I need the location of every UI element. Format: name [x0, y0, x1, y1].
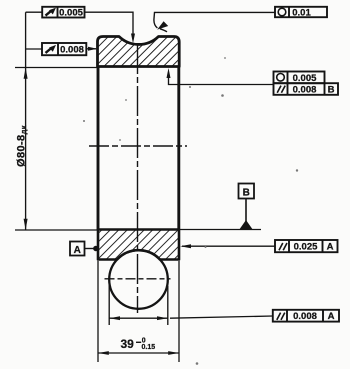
39 dim extension line right: [178, 261, 180, 362]
F6 parallelism symbol: [277, 313, 285, 320]
F6 leader to ball dimension line: [170, 316, 273, 318]
cylinder right outline: [177, 67, 180, 231]
svg-text:B: B: [243, 188, 250, 199]
39 dim right arrowhead: [168, 351, 179, 355]
horizontal centerline of ball: [105, 278, 171, 280]
datum B symbol box: [239, 184, 255, 199]
ball dim right arrowhead: [157, 316, 168, 320]
paper specks: [83, 57, 298, 365]
39 dim left arrowhead: [98, 351, 109, 355]
ball width dimension line: [109, 317, 168, 319]
extension line top left: [15, 67, 97, 69]
feature control frame F1 (runout 0.005): [42, 7, 84, 18]
extension line bottom left: [15, 229, 97, 231]
dia80 bottom arrowhead: [24, 219, 28, 230]
ball dim left arrowhead: [109, 316, 120, 320]
feature control frame F5 (parallelism 0.025 A): [275, 240, 338, 252]
svg-text:0.025: 0.025: [294, 241, 318, 252]
ball width extension line right: [167, 286, 169, 325]
svg-text:A: A: [74, 245, 81, 256]
feature control frame F3 (circularity 0.01): [275, 7, 327, 17]
svg-text:A: A: [327, 241, 334, 252]
F1 runout symbol: [46, 8, 57, 16]
F4 leader arrowhead (up to outer ring face): [167, 68, 171, 78]
svg-text:0.008: 0.008: [60, 45, 84, 56]
datum A dot on surface: [93, 246, 98, 251]
F2 leader to surface: [86, 48, 96, 50]
svg-text:0.005: 0.005: [59, 8, 83, 19]
svg-text:0.01: 0.01: [292, 7, 311, 18]
datum B face extension line: [179, 229, 261, 231]
F4 parallelism symbol: [277, 86, 285, 93]
dia80 top arrowhead: [24, 68, 28, 79]
dia80 dimension vertical line: [25, 12, 27, 230]
feature control frame F6 (parallelism 0.008 A): [273, 310, 339, 322]
F5 leader: [182, 245, 275, 247]
F5 arrowhead (to inner ring OD): [180, 244, 191, 248]
F2 runout symbol: [46, 45, 57, 53]
39 dimension line: [98, 352, 179, 354]
svg-text:0.005: 0.005: [293, 73, 317, 84]
svg-text:0.008: 0.008: [293, 84, 317, 95]
vertical centerline: [137, 44, 139, 313]
svg-text:B: B: [328, 84, 335, 95]
F4 leader: [169, 76, 274, 85]
svg-text:0.15: 0.15: [142, 344, 156, 351]
39 dim extension line left: [97, 261, 99, 362]
F1 leader right: [85, 12, 134, 36]
ball (circle): [109, 250, 168, 309]
F4 circularity symbol: [277, 74, 285, 82]
feature control frame F4 (circularity 0.005 / parallelism 0.008 B): [274, 72, 339, 95]
F3 circularity symbol: [278, 8, 286, 16]
F2 connector to dim line: [26, 48, 42, 50]
svg-text:0.008: 0.008: [293, 311, 317, 322]
F5 parallelism symbol: [279, 243, 287, 250]
F1 leader arrowhead (into groove): [131, 34, 135, 44]
datum A box: [70, 242, 85, 256]
datum B triangle: [240, 220, 253, 229]
F3 leader with hooked arrow: [154, 12, 275, 31]
ball width extension line left: [108, 277, 110, 325]
cylinder left outline: [97, 67, 100, 231]
inner ring cross-section (bottom hatched block): [98, 230, 179, 260]
svg-text:39: 39: [121, 337, 135, 351]
F2 leader arrowhead: [88, 47, 97, 51]
outer ring cross-section (top hatched block with ball groove): [98, 37, 180, 67]
feature control frame F2 (runout 0.008): [42, 43, 86, 55]
datum B stem: [245, 199, 247, 228]
svg-text:A: A: [328, 311, 335, 322]
F1 connector to dim line: [26, 11, 43, 13]
datum A leader: [85, 248, 97, 250]
horizontal centerline of cylinder: [89, 145, 187, 147]
F3 hook arrowhead: [157, 21, 168, 29]
